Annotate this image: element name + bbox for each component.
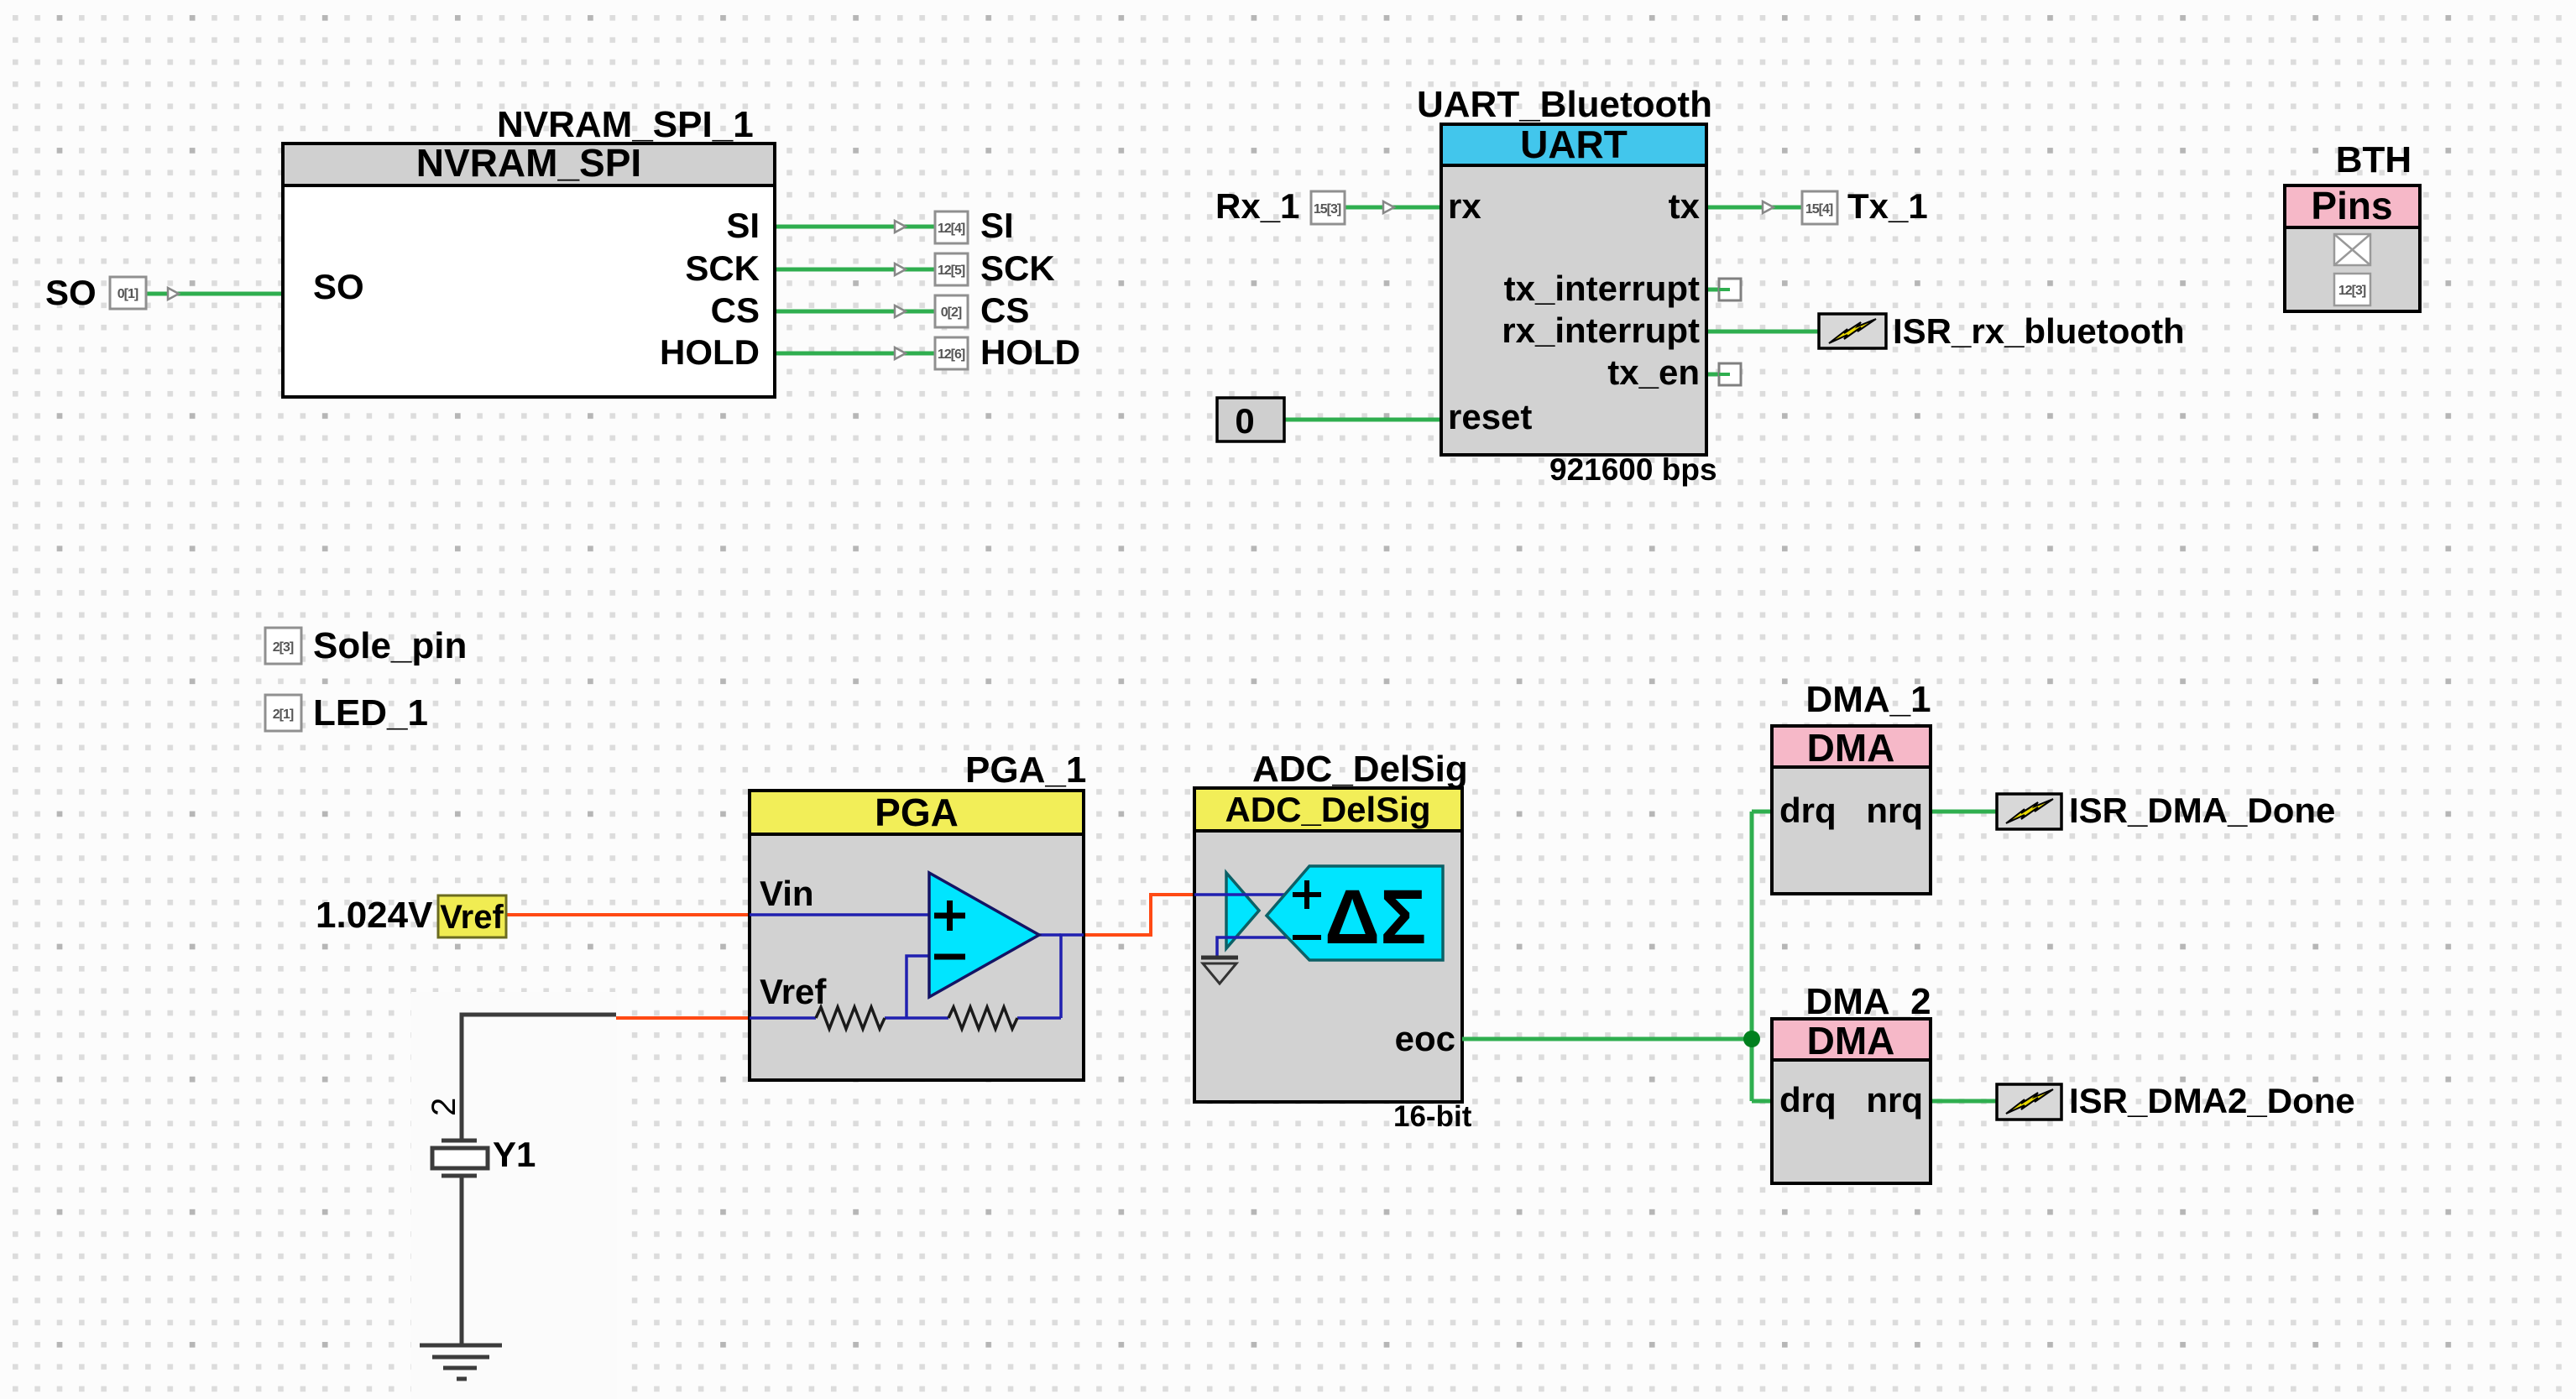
svg-text:LED_1: LED_1 [313,692,428,733]
junction eoc node [1743,1031,1760,1047]
svg-text:CS: CS [980,290,1029,330]
svg-text:2: 2 [426,1098,462,1116]
svg-text:0[2]: 0[2] [941,305,962,320]
pin HOLD [895,332,1080,372]
wire DMA_2 nrq to ISR (green) [1931,1099,1997,1104]
component UART_Bluetooth [1417,84,1717,487]
svg-text:Y1: Y1 [493,1135,536,1174]
svg-text:BTH: BTH [2336,139,2411,180]
ground (ADC input) [1201,958,1238,984]
svg-text:eoc: eoc [1395,1019,1455,1058]
svg-text:12[4]: 12[4] [938,222,965,236]
svg-text:12[5]: 12[5] [938,264,965,278]
svg-text:Pins: Pins [2311,184,2392,227]
white selection area around crystal [411,992,617,1399]
wire DMA_1 nrq to ISR (green) [1931,810,1997,814]
wire CS [773,310,935,314]
crystal pin label 2 [426,1098,462,1116]
pin Rx_1 [1215,186,1394,226]
svg-text:12[6]: 12[6] [938,347,965,362]
svg-text:SI: SI [726,206,760,245]
resistor R1 (PGA feedback) [816,1007,885,1029]
wire PGA out to ADC in (orange) [1084,895,1194,935]
svg-text:rx: rx [1448,186,1481,226]
wire ADC plus input (blue) [1194,893,1289,896]
svg-text:nrq: nrq [1866,791,1923,830]
svg-text:2[3]: 2[3] [273,640,294,655]
voltage source 1.024V Vref [316,895,506,937]
component ADC_DelSig [1194,749,1472,1133]
svg-text:ISR_rx_bluetooth: ISR_rx_bluetooth [1893,311,2185,351]
ISR ISR_DMA_Done [1997,791,2335,830]
svg-text:tx_interrupt: tx_interrupt [1504,269,1700,308]
pin LED_1 [265,692,428,733]
svg-text:ADC_DelSig: ADC_DelSig [1225,790,1430,829]
terminal tx_interrupt [1719,279,1741,300]
ground (crystal) [420,1345,502,1379]
pin Sole_pin [265,625,467,666]
svg-text:nrq: nrq [1866,1080,1923,1120]
svg-text:PGA: PGA [875,791,959,834]
svg-text:UART: UART [1520,123,1628,166]
pin SCK [895,248,1055,288]
pin CS [895,290,1029,330]
svg-text:0[1]: 0[1] [118,287,138,301]
svg-text:HOLD: HOLD [980,332,1080,372]
wire SI [773,225,935,229]
svg-text:NVRAM_SPI_1: NVRAM_SPI_1 [497,104,754,145]
svg-text:drq: drq [1779,791,1837,830]
svg-text:ISR_DMA2_Done: ISR_DMA2_Done [2069,1081,2355,1120]
wire crystal net (black) [462,1015,616,1141]
svg-text:tx_en: tx_en [1607,352,1700,392]
wire rx_interrupt to ISR [1706,330,1819,334]
svg-text:15[4]: 15[4] [1805,202,1833,217]
wire HOLD [773,352,935,356]
svg-text:921600 bps: 921600 bps [1549,452,1717,487]
pin SI [895,206,1014,245]
wire SO to NVRAM [146,292,283,296]
component PGA_1 [750,749,1086,1080]
crystal Y1 [432,1135,536,1176]
svg-text:1.024V: 1.024V [316,895,433,936]
svg-text:ΔΣ: ΔΣ [1325,874,1426,960]
wire Rx_1 to rx [1345,206,1441,210]
wire tx_interrupt stub [1706,288,1730,292]
wire tx_en stub [1706,373,1730,377]
svg-text:PGA_1: PGA_1 [965,749,1086,791]
wire crystal to ground (black) [460,1176,464,1345]
wire eoc net (green) [1462,812,1772,1101]
buffer triangle (ADC) [1226,873,1259,948]
wire tx to Tx_1 [1706,206,1802,210]
resistor R2 (PGA feedback) [948,1007,1017,1029]
svg-text:SI: SI [980,206,1014,245]
wire Vin internal (blue) [750,913,929,916]
wire ADC minus input to ground (blue) [1217,937,1289,957]
delta-sigma modulator symbol [1267,866,1443,960]
svg-text:SO: SO [45,273,97,312]
svg-text:rx_interrupt: rx_interrupt [1502,311,1700,350]
wire Vref source to PGA Vin (orange) [506,913,750,916]
svg-text:15[3]: 15[3] [1314,202,1341,217]
svg-text:Sole_pin: Sole_pin [313,625,467,666]
svg-text:tx: tx [1669,186,1701,226]
svg-text:12[3]: 12[3] [2338,284,2366,298]
svg-text:Vref: Vref [760,972,827,1011]
svg-text:reset: reset [1448,397,1532,436]
op-amp U1 (PGA) [929,873,1039,997]
svg-text:CS: CS [711,290,760,330]
wire Vref internal (blue) [750,935,1084,1018]
svg-text:ISR_DMA_Done: ISR_DMA_Done [2069,791,2335,830]
svg-text:Tx_1: Tx_1 [1847,186,1928,226]
wire 0 to reset [1284,418,1441,422]
svg-text:16-bit: 16-bit [1393,1100,1472,1133]
svg-text:UART_Bluetooth: UART_Bluetooth [1417,84,1712,125]
wire crystal to PGA Vref (orange) [616,1016,750,1020]
svg-text:DMA: DMA [1807,726,1895,770]
ISR ISR_DMA2_Done [1997,1081,2355,1120]
terminal tx_en [1719,363,1741,385]
component DMA_2 [1772,981,1931,1183]
svg-text:Rx_1: Rx_1 [1215,186,1299,226]
svg-text:HOLD: HOLD [660,332,760,372]
component DMA_1 [1772,679,1931,894]
BTH pin 12[3] [2334,274,2370,305]
svg-text:DMA: DMA [1807,1019,1895,1062]
svg-text:2[1]: 2[1] [273,707,294,722]
pin SO [45,273,179,312]
component NVRAM_SPI_1 [283,104,775,397]
svg-text:Vin: Vin [760,874,814,913]
svg-text:ADC_DelSig: ADC_DelSig [1252,749,1468,790]
svg-text:NVRAM_SPI: NVRAM_SPI [416,141,641,185]
pin Tx_1 [1763,186,1928,226]
ISR ISR_rx_bluetooth [1819,311,2185,351]
component BTH [2285,139,2420,311]
svg-text:DMA_2: DMA_2 [1805,981,1931,1022]
svg-text:SCK: SCK [980,248,1055,288]
svg-text:SO: SO [313,267,364,306]
svg-text:0: 0 [1235,401,1254,441]
wire SCK [773,268,935,272]
svg-text:drq: drq [1779,1080,1837,1120]
svg-text:SCK: SCK [685,248,760,288]
svg-text:Vref: Vref [440,899,504,936]
logic low 0 [1217,398,1284,441]
BTH analog pin x-box [2334,234,2370,265]
svg-text:DMA_1: DMA_1 [1805,679,1931,720]
